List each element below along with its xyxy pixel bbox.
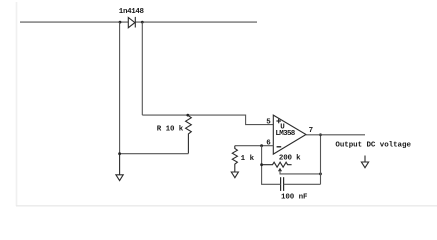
- output reference arrow: [361, 156, 368, 168]
- wire top rail: [20, 21, 128, 23]
- op-amp minus input mark: [277, 146, 282, 148]
- ground left: [116, 154, 123, 181]
- svg-text:100 nF: 100 nF: [281, 194, 308, 202]
- wire pin6 input: [235, 145, 273, 147]
- svg-text:1n4148: 1n4148: [119, 8, 145, 16]
- op-amp plus input mark: [276, 119, 281, 124]
- wire feedback left vertical: [261, 146, 263, 185]
- wire right vertical from cathode: [141, 22, 143, 115]
- wire cap left: [261, 183, 281, 185]
- svg-text:5: 5: [266, 119, 271, 127]
- node cathode junction: [141, 21, 144, 24]
- node pin6 feedback junction: [260, 144, 263, 147]
- svg-text:LM358: LM358: [275, 130, 295, 138]
- svg-text:7: 7: [309, 127, 314, 135]
- wire left vertical from anode: [119, 22, 121, 154]
- node pot left junction: [260, 163, 263, 166]
- resistor R1 10k: [186, 115, 192, 153]
- resistor R2 1k: [232, 146, 237, 172]
- capacitor C1 100nF: [281, 177, 284, 191]
- svg-text:Output DC voltage: Output DC voltage: [335, 141, 411, 149]
- wire top rail right of diode: [135, 21, 257, 23]
- frame bottom edge (faint): [16, 205, 437, 207]
- node R1 top junction: [186, 114, 189, 117]
- op-amp U1 LM358: [273, 115, 306, 154]
- node wiper junction: [319, 173, 322, 176]
- potentiometer R3 200k: [262, 162, 292, 167]
- svg-text:1 k: 1 k: [241, 155, 255, 163]
- wire cap right: [284, 183, 321, 185]
- frame left edge (faint): [16, 2, 18, 206]
- wire horizontal to R1 top and pin5 step: [142, 115, 273, 125]
- svg-text:200 k: 200 k: [279, 154, 301, 162]
- pot wiper arrow: [278, 168, 321, 174]
- svg-text:R 10 k: R 10 k: [157, 126, 184, 134]
- wire output: [306, 134, 365, 136]
- svg-text:6: 6: [266, 140, 271, 148]
- node anode junction: [119, 21, 122, 24]
- node output junction: [319, 133, 322, 136]
- wire R1 bottom to left vertical: [120, 153, 189, 155]
- node left ground junction: [118, 152, 121, 155]
- wire feedback right vertical: [320, 135, 322, 185]
- ground under R2: [231, 172, 238, 178]
- diode 1n4148: [128, 17, 135, 28]
